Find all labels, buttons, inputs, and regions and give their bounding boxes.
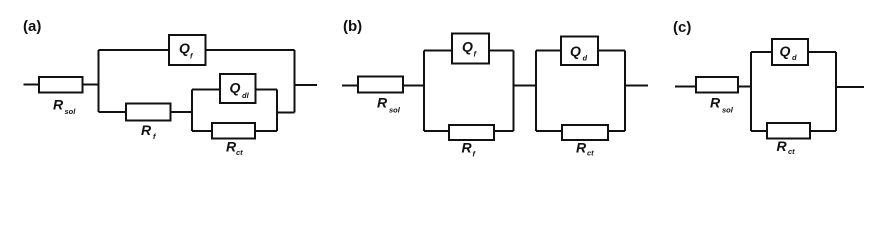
svg-text:Q: Q <box>780 43 791 59</box>
svg-text:R: R <box>462 140 473 156</box>
svg-text:sol: sol <box>65 107 77 116</box>
svg-text:d: d <box>583 54 588 63</box>
svg-text:(a): (a) <box>23 18 41 35</box>
svg-text:Q: Q <box>570 43 581 59</box>
svg-text:Q: Q <box>179 40 190 56</box>
svg-text:R: R <box>53 97 64 113</box>
svg-text:(c): (c) <box>673 19 691 36</box>
svg-text:R: R <box>377 95 388 111</box>
svg-text:(b): (b) <box>343 18 362 35</box>
svg-text:d: d <box>792 53 797 62</box>
svg-text:dl: dl <box>242 91 250 100</box>
svg-text:sol: sol <box>389 106 401 115</box>
svg-text:ct: ct <box>788 147 795 156</box>
svg-text:Q: Q <box>462 39 473 55</box>
svg-text:ct: ct <box>587 148 594 157</box>
svg-text:R: R <box>710 95 721 111</box>
svg-text:R: R <box>777 138 788 154</box>
svg-text:R: R <box>141 122 152 138</box>
svg-text:Q: Q <box>230 80 241 96</box>
svg-text:R: R <box>576 139 587 155</box>
svg-text:ct: ct <box>236 148 243 157</box>
svg-text:sol: sol <box>722 106 734 115</box>
